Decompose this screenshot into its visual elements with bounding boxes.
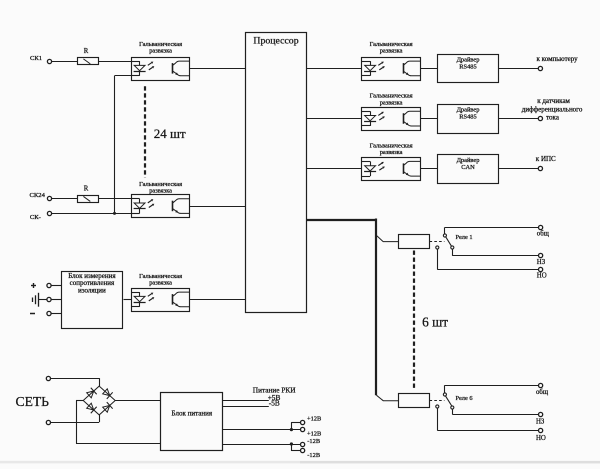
processor block [246, 33, 307, 313]
bridge diode D4 (bottom-right) [103, 402, 113, 412]
wire processor to optocoupler R2 [306, 118, 362, 120]
wire optocoupler R3 to driver [420, 168, 437, 170]
label: к ИПС [536, 155, 556, 163]
label: галь. развязка for opto 24 [139, 181, 182, 195]
svg-text:СК24: СК24 [30, 192, 46, 199]
svg-text:к ИПС: к ИПС [536, 155, 556, 163]
mains terminal top [46, 376, 50, 380]
label: галь. развязка for opto 1 [139, 41, 182, 55]
wire processor to optocoupler R3 [306, 168, 362, 170]
svg-text:развязка: развязка [380, 48, 403, 55]
relay 1 NC contact [451, 246, 454, 256]
junction +12В [290, 428, 293, 431]
relay 1 pivot and common stem [443, 227, 446, 237]
junction -12В [290, 442, 293, 445]
svg-text:развязка: развязка [149, 188, 172, 195]
driver RS485 block 1 [438, 55, 499, 83]
terminal - (insulation) [30, 311, 51, 315]
svg-text:общ: общ [537, 231, 550, 238]
terminal -12В (lower) [301, 448, 321, 459]
terminal CK1 [30, 55, 52, 64]
mains terminal bottom [46, 420, 50, 424]
svg-text:-12В: -12В [307, 438, 320, 445]
label 6 шт [422, 314, 448, 329]
svg-text:Реле 6: Реле 6 [456, 395, 473, 402]
svg-text:дифференциального: дифференциального [522, 106, 583, 114]
wire bridge minus to power block [76, 401, 161, 444]
wire bridge plus to power block [115, 400, 161, 402]
terminal circle row 3 [538, 166, 542, 170]
bridge diode D1 (top-left) [87, 388, 97, 398]
svg-text:к датчикам: к датчикам [537, 97, 570, 105]
svg-text:общ: общ [536, 389, 549, 396]
svg-text:развязка: развязка [149, 48, 172, 55]
wire mains top to bridge [51, 378, 100, 386]
wire driver 2 to terminal [499, 118, 539, 120]
terminal circle row 1 [538, 66, 542, 70]
terminal CK- [30, 211, 52, 221]
driver RS485 block 2 [438, 105, 499, 134]
optocoupler U24 (CK24 galvanic isolation) [131, 195, 189, 218]
svg-text:НЗ: НЗ [536, 419, 545, 426]
svg-text:изоляции: изоляции [78, 286, 106, 294]
svg-text:6 шт: 6 шт [422, 314, 448, 329]
svg-text:R: R [84, 185, 89, 192]
label +5В [268, 393, 281, 402]
label: галь. развязка for opto R2 [370, 93, 413, 107]
svg-text:развязка: развязка [380, 99, 403, 106]
wire: bus to relay 6 coil [376, 395, 398, 401]
terminal общ (relay 1) [537, 225, 550, 237]
wire +5В [223, 400, 269, 402]
terminal НО (relay 6) [536, 428, 546, 442]
svg-text:CAN: CAN [461, 164, 475, 171]
svg-text:тока: тока [546, 113, 560, 121]
label Питание РКИ [253, 385, 296, 394]
wire relay 6 NO to НО [437, 430, 538, 432]
svg-text:развязка: развязка [149, 280, 172, 287]
terminal circle row 2 [538, 116, 542, 120]
svg-text:Процессор: Процессор [253, 35, 298, 46]
relay 1 coil [399, 235, 430, 249]
dashed link relay 6 [430, 400, 445, 402]
terminal НО (relay 1) [537, 267, 547, 279]
driver CAN block 3 [438, 155, 499, 184]
svg-text:СК-: СК- [30, 214, 41, 221]
wire +12В rail [223, 422, 301, 430]
ground symbol [33, 293, 47, 307]
wire relay 6 NC to НЗ [452, 414, 538, 416]
resistor R (CK1) [78, 48, 99, 65]
dashed line: 24 channels [144, 86, 146, 177]
wire optocoupler 24 to processor [190, 206, 246, 208]
wire + to block [51, 285, 61, 287]
wire: bus to relay 1 coil [377, 236, 399, 242]
wire ground to block [51, 299, 61, 301]
wire driver 3 to terminal [499, 168, 539, 170]
wire R to optocoupler 24 [98, 198, 131, 200]
relay 1 armature [446, 237, 452, 247]
label -5В [269, 399, 280, 408]
label: галь. развязка for opto R1 [370, 41, 413, 55]
label: галь. развязка for opto R3 [370, 142, 413, 156]
svg-text:RS485: RS485 [459, 63, 476, 70]
wire CK- to opto 24 cathode [52, 213, 132, 215]
wire optocoupler R1 to driver [420, 68, 437, 70]
bridge diode D2 (top-right) [103, 389, 113, 399]
relay 6 NO contact [436, 405, 439, 430]
thick bus: processor to relays [306, 219, 376, 396]
svg-text:24 шт: 24 шт [154, 126, 186, 141]
svg-text:Драйвер: Драйвер [457, 107, 480, 114]
optocoupler UR3 (output isolation) [362, 158, 421, 181]
optocoupler UR2 (output isolation) [362, 108, 421, 131]
svg-text:Драйвер: Драйвер [457, 56, 480, 63]
wire R to optocoupler 1 [98, 61, 131, 63]
wire -5В [223, 406, 269, 408]
wire optocoupler R2 to driver [420, 118, 437, 120]
relay 6 armature [446, 396, 452, 406]
terminal CK24 [30, 192, 52, 201]
label Реле 1 [456, 234, 473, 241]
label: к компьютеру [537, 55, 579, 63]
svg-text:-5В: -5В [269, 399, 280, 408]
svg-text:+12В: +12В [307, 430, 321, 437]
wire processor to optocoupler R1 [306, 68, 362, 70]
dashed line: 6 relays [413, 251, 415, 390]
svg-text:RS485: RS485 [459, 114, 476, 121]
wire mains bottom to bridge [51, 415, 100, 423]
svg-text:НО: НО [537, 273, 547, 280]
wire relay 6 common to общ [445, 385, 539, 387]
ground terminal [47, 297, 51, 301]
wire CK1 to R [52, 61, 78, 63]
relay 6 coil [399, 394, 430, 408]
terminal НЗ (relay 6) [536, 412, 545, 425]
svg-text:НЗ: НЗ [537, 259, 546, 266]
svg-text:+12В: +12В [307, 416, 321, 423]
scan artifact streak (bottom) [0, 461, 600, 464]
svg-text:развязка: развязка [380, 149, 403, 156]
label: галь. развязка for opto 25 [139, 273, 182, 287]
svg-text:СК1: СК1 [30, 55, 42, 62]
relay 1 NO contact [436, 246, 439, 270]
dashed link relay 1 [430, 241, 445, 243]
label Реле 6 [456, 395, 473, 402]
svg-text:Реле 1: Реле 1 [456, 234, 473, 241]
optocoupler UR1 (output isolation) [362, 58, 421, 81]
optocoupler U25 (insulation block isolation) [131, 289, 189, 312]
terminal -12В (upper) [301, 438, 321, 447]
svg-text:НО: НО [536, 435, 546, 442]
wire relay 1 common to общ [445, 227, 539, 229]
svg-text:-12В: -12В [307, 452, 320, 459]
wire relay 1 NC to НЗ [452, 255, 538, 257]
diode bridge diamond [83, 386, 115, 415]
optocoupler U1 (CK1 galvanic isolation) [131, 58, 189, 81]
wire - to block [51, 313, 61, 315]
junction: CK- rail [113, 212, 116, 215]
wire relay 1 NO to НО [437, 269, 538, 271]
label СЕТЬ [16, 394, 50, 409]
resistor R (CK24) [78, 185, 99, 202]
svg-text:R: R [84, 48, 89, 55]
label 24 шт [154, 126, 186, 141]
wire: common rail to opto 1 cathode [115, 76, 132, 214]
wire block to optocoupler 25 [124, 299, 132, 301]
relay 6 NC contact [451, 406, 454, 414]
wire optocoupler 25 to processor [190, 299, 246, 301]
terminal НЗ (relay 1) [537, 253, 546, 266]
terminal + (insulation) [31, 283, 51, 288]
block: Блок измерения сопротивления изоляции [62, 272, 123, 329]
wire optocoupler 1 to processor [190, 68, 246, 70]
svg-text:к компьютеру: к компьютеру [537, 55, 579, 63]
relay 6 pivot and common stem [443, 385, 446, 396]
wire -12В rail [223, 444, 301, 451]
terminal общ (relay 6) [536, 383, 549, 396]
terminal +12В (upper) [301, 416, 322, 425]
svg-text:Драйвер: Драйвер [457, 157, 480, 164]
terminal +12В (lower) [301, 427, 322, 437]
label: к датчикам дифференциального тока [522, 97, 583, 121]
bridge diode D3 (bottom-left) [87, 403, 97, 413]
wire driver 1 to terminal [499, 68, 539, 70]
block: Блок питания [161, 393, 223, 451]
svg-text:Блок питания: Блок питания [172, 409, 213, 417]
wire CK24 to R [52, 198, 78, 200]
svg-text:СЕТЬ: СЕТЬ [16, 394, 50, 409]
